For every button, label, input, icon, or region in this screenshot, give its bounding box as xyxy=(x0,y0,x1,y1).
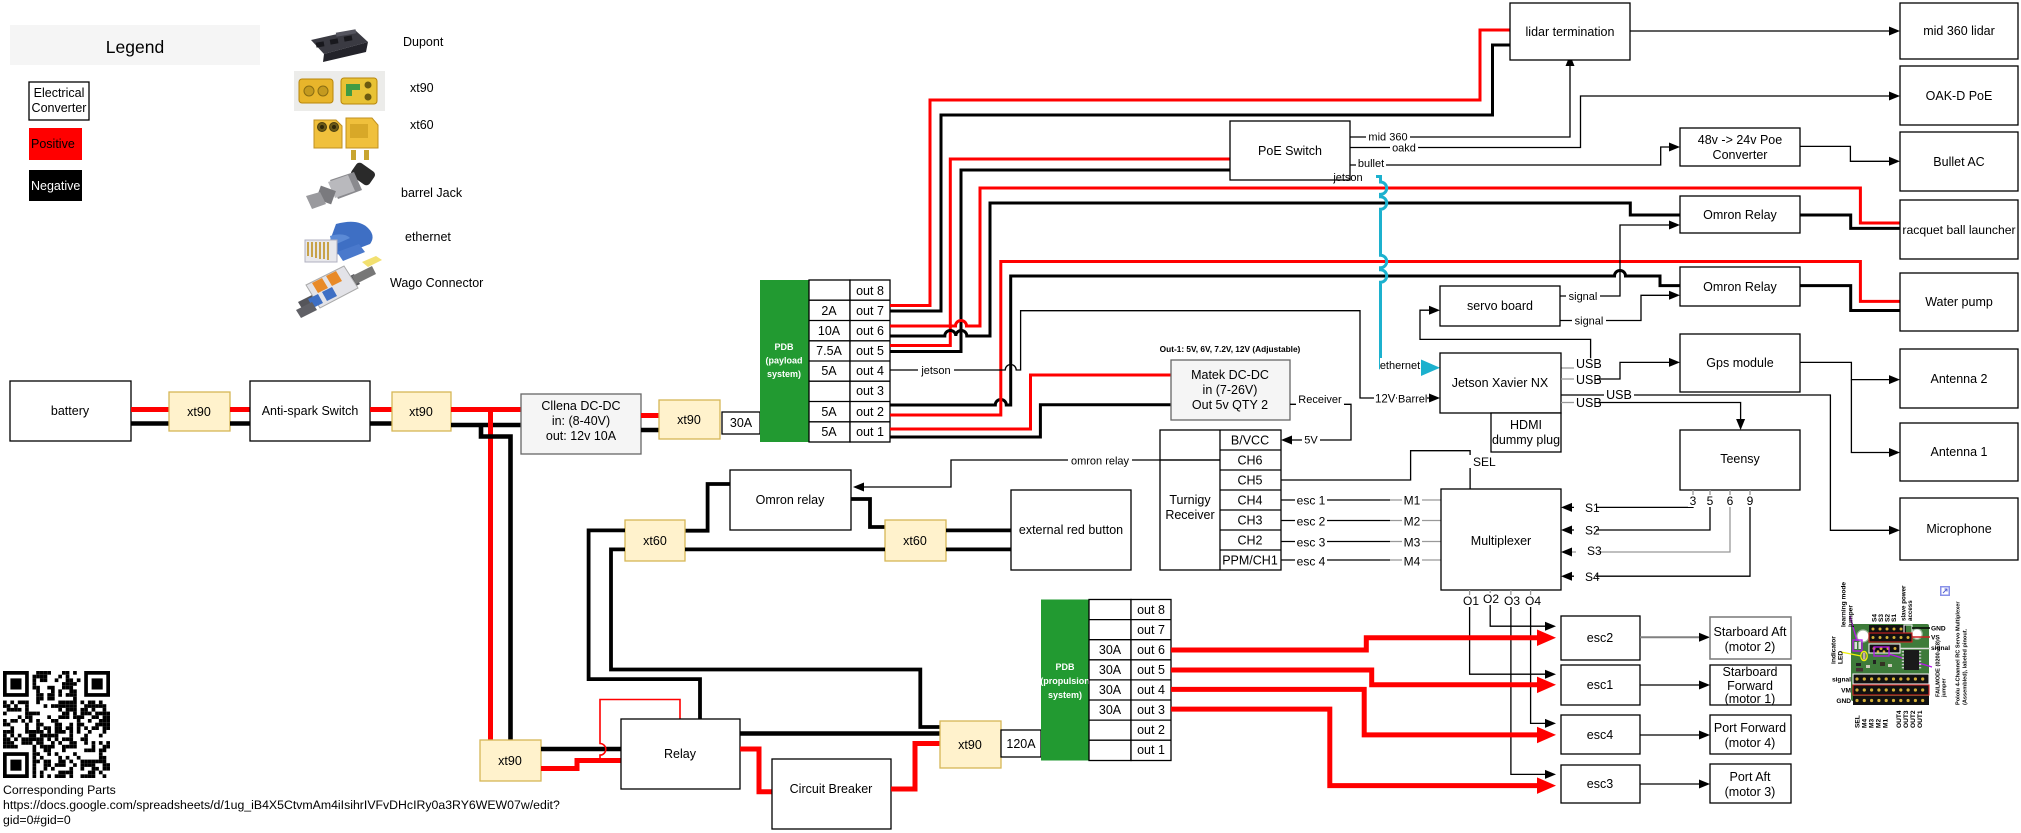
wire out6 black to omron relay 1 xyxy=(890,203,1680,336)
svg-text:Pololu 4-Channel RC Servo Mult: Pololu 4-Channel RC Servo Multiplexer xyxy=(1956,601,1962,705)
svg-text:xt90: xt90 xyxy=(958,738,982,752)
wire xt90A to antispark black xyxy=(230,421,250,426)
svg-text:Converter: Converter xyxy=(1713,148,1768,162)
wire xt90B to cllena red with branch xyxy=(451,407,521,412)
teensy pin number labels xyxy=(1688,494,1755,508)
wire xt60A to xt60B lower black xyxy=(685,548,885,552)
svg-text:O4: O4 xyxy=(1525,594,1541,608)
wire teensy pin 3 to multiplexer S1 xyxy=(1561,497,1693,515)
wire out5 red to poe switch xyxy=(890,159,1230,346)
svg-text:in (7-26V): in (7-26V) xyxy=(1203,383,1258,397)
wire antispark to xt90B red xyxy=(370,407,392,412)
matek dc-dc xyxy=(1160,344,1301,420)
wire xt60B to external red button lower xyxy=(946,548,1011,552)
svg-text:xt60: xt60 xyxy=(903,534,927,548)
pololu multiplexer pinout photo xyxy=(1831,582,1969,728)
svg-text:CH3: CH3 xyxy=(1237,514,1262,528)
wire esc1 to motor1 xyxy=(1640,681,1710,690)
svg-text:out 4: out 4 xyxy=(856,364,884,378)
svg-text:OUT3: OUT3 xyxy=(1903,710,1910,728)
svg-text:30A: 30A xyxy=(1099,663,1122,677)
wire turnigy ch5 to multiplexer sel xyxy=(1281,451,1496,489)
teensy xyxy=(1680,430,1800,490)
wire xt90A to antispark red xyxy=(230,407,250,412)
svg-text:S1: S1 xyxy=(1891,614,1898,622)
svg-text:CH6: CH6 xyxy=(1237,454,1262,468)
wire multiplexer O4 to esc4 xyxy=(1524,590,1556,728)
svg-text:S4: S4 xyxy=(1585,570,1600,584)
wire relay coil red thin xyxy=(600,700,680,761)
svg-text:(payload: (payload xyxy=(765,356,802,366)
svg-text:Out 5v QTY 2: Out 5v QTY 2 xyxy=(1192,398,1268,412)
svg-text:O2: O2 xyxy=(1483,592,1499,606)
wire jetson 12v barrel from out4 xyxy=(890,311,1372,398)
circuit breaker xyxy=(772,759,891,829)
svg-text:ethernet: ethernet xyxy=(1380,360,1420,372)
svg-text:bullet: bullet xyxy=(1358,158,1384,170)
wire omron relay 2 to water pump black xyxy=(1800,286,1900,311)
svg-text:S3: S3 xyxy=(1587,544,1602,558)
svg-text:HDMI: HDMI xyxy=(1510,418,1542,432)
svg-text:Corresponding Parts: Corresponding Parts xyxy=(3,783,116,797)
svg-text:USB: USB xyxy=(1576,357,1602,371)
svg-text:OAK-D PoE: OAK-D PoE xyxy=(1926,89,1993,103)
anti-spark switch xyxy=(250,381,370,441)
svg-text:Matek DC-DC: Matek DC-DC xyxy=(1191,368,1269,382)
svg-text:5V: 5V xyxy=(1304,435,1318,447)
antenna 1 xyxy=(1900,423,2018,481)
wire battery to xt90 black xyxy=(131,421,169,426)
svg-text:30A: 30A xyxy=(1099,643,1122,657)
wire out1 black to matek xyxy=(890,405,1171,437)
svg-text:out 2: out 2 xyxy=(1137,723,1165,737)
svg-text:10A: 10A xyxy=(818,324,841,338)
svg-text:Jetson Xavier NX: Jetson Xavier NX xyxy=(1452,376,1549,390)
svg-text:(motor 1): (motor 1) xyxy=(1725,692,1776,706)
svg-text:M1: M1 xyxy=(1883,719,1890,728)
wire pdb out6 red to esc2 xyxy=(1171,630,1556,651)
svg-text:2A: 2A xyxy=(821,304,837,318)
svg-text:USB: USB xyxy=(1576,396,1602,410)
wire branch down black to xt90 bottom xyxy=(481,423,511,740)
svg-text:PDB: PDB xyxy=(774,342,794,352)
svg-text:OUT4: OUT4 xyxy=(1896,710,1903,728)
svg-text:xt90: xt90 xyxy=(677,413,701,427)
svg-text:9: 9 xyxy=(1747,494,1754,508)
legend positive swatch xyxy=(29,128,82,160)
wire esc2 to motor2 xyxy=(1640,633,1710,642)
label ethernet and cyan arrow into jetson xyxy=(1380,358,1440,376)
jetson xavier nx xyxy=(1440,353,1561,413)
svg-text:Multiplexer: Multiplexer xyxy=(1471,534,1531,548)
svg-text:ethernet: ethernet xyxy=(405,230,451,244)
connector xt90 C xyxy=(659,400,720,439)
svg-text:out 2: out 2 xyxy=(856,405,884,419)
svg-text:3: 3 xyxy=(1690,494,1697,508)
svg-text:jumper: jumper xyxy=(1848,605,1855,628)
esc4 xyxy=(1561,715,1640,754)
connector xt60 A xyxy=(625,520,685,561)
svg-text:M2: M2 xyxy=(1404,515,1421,529)
svg-text:(motor 2): (motor 2) xyxy=(1725,640,1776,654)
svg-text:OUT2: OUT2 xyxy=(1910,710,1917,728)
svg-text:out 5: out 5 xyxy=(1137,663,1165,677)
svg-text:jetson: jetson xyxy=(920,365,950,377)
wire multiplexer O3 to esc3 xyxy=(1503,590,1556,779)
antenna 2 xyxy=(1900,349,2018,408)
multiplexer xyxy=(1441,489,1561,590)
PoE switch xyxy=(1230,121,1350,180)
svg-text:signal: signal xyxy=(1569,291,1598,303)
svg-text:(motor 3): (motor 3) xyxy=(1725,785,1776,799)
svg-text:30A: 30A xyxy=(1099,683,1122,697)
svg-text:5A: 5A xyxy=(821,425,837,439)
wire teensy pin 5 to multiplexer S2 xyxy=(1561,497,1710,538)
fuse 30A xyxy=(722,412,760,434)
wire turnigy ppm to multiplexer m4 xyxy=(1281,555,1441,569)
svg-text:out 1: out 1 xyxy=(856,425,884,439)
relay xyxy=(621,719,740,789)
wire xt90 bottom to relay black xyxy=(541,747,621,752)
svg-text:esc4: esc4 xyxy=(1587,728,1613,742)
wire circuit breaker to xt90 mid red xyxy=(891,744,940,790)
connector xt90 A xyxy=(169,392,230,431)
svg-text:CH4: CH4 xyxy=(1237,494,1262,508)
svg-text:esc2: esc2 xyxy=(1587,631,1613,645)
wire branch down red to xt90 bottom xyxy=(488,410,493,741)
wire omron relay middle left to xt60 A xyxy=(685,484,730,531)
svg-text:Barrel: Barrel xyxy=(1398,394,1427,406)
svg-text:S2: S2 xyxy=(1585,524,1600,538)
svg-text:lidar termination: lidar termination xyxy=(1526,25,1615,39)
svg-text:USB: USB xyxy=(1606,388,1632,402)
svg-text:xt90: xt90 xyxy=(498,754,522,768)
svg-text:M4: M4 xyxy=(1404,555,1421,569)
wire ethernet cyan from poe to jetson xyxy=(1376,177,1392,368)
svg-text:xt60: xt60 xyxy=(410,118,434,132)
legend title box xyxy=(10,25,260,65)
wire usb jetson to gps module xyxy=(1561,358,1680,387)
svg-text:signal: signal xyxy=(1575,316,1604,328)
svg-text:esc 2: esc 2 xyxy=(1297,515,1326,529)
legend photo ethernet connector xyxy=(305,222,373,262)
wire poe bullet to 48v converter xyxy=(1350,143,1680,171)
svg-text:out: 12v 10A: out: 12v 10A xyxy=(546,429,617,443)
wire pdb out4 red to esc4 xyxy=(1171,689,1556,743)
wire xt90B to cllena black xyxy=(451,423,521,428)
wire out1 red to matek xyxy=(890,375,1171,429)
svg-text:esc1: esc1 xyxy=(1587,678,1613,692)
svg-text:(motor 4): (motor 4) xyxy=(1725,736,1776,750)
wire out5 black to poe switch xyxy=(890,170,1230,352)
svg-text:GND: GND xyxy=(1931,626,1946,633)
wire servo board signal 1 to omron relay 1 xyxy=(1560,221,1680,304)
svg-text:5A: 5A xyxy=(821,405,837,419)
svg-text:esc3: esc3 xyxy=(1587,777,1613,791)
svg-text:Dupont: Dupont xyxy=(403,35,444,49)
wire out2 black to omron relay 2 xyxy=(890,271,1680,406)
PDB payload system green box xyxy=(760,280,809,442)
svg-text:esc 4: esc 4 xyxy=(1297,555,1326,569)
wire out7 black to lidar termination xyxy=(890,45,1510,311)
svg-text:access: access xyxy=(1907,600,1914,621)
svg-text:30A: 30A xyxy=(1099,703,1122,717)
esc1 xyxy=(1561,665,1640,705)
svg-text:Omron relay: Omron relay xyxy=(756,493,826,507)
wire pdb out5 red to esc1 xyxy=(1171,670,1556,693)
svg-text:B/VCC: B/VCC xyxy=(1231,434,1269,448)
legend photo xt90 pair xyxy=(294,71,385,111)
wire out2 red to water pump xyxy=(890,262,1900,416)
svg-text:Turnigy: Turnigy xyxy=(1169,493,1211,507)
svg-text:Relay: Relay xyxy=(664,747,697,761)
wire relay to xt90 mid black xyxy=(740,731,940,736)
battery xyxy=(10,381,131,441)
connector xt90 bottom left xyxy=(480,740,541,781)
external red button xyxy=(1011,490,1131,570)
svg-text:48v -> 24v Poe: 48v -> 24v Poe xyxy=(1698,133,1782,147)
wire poe oakd to OAK-D PoE xyxy=(1350,92,1900,155)
svg-text:out 3: out 3 xyxy=(1137,703,1165,717)
svg-text:Circuit Breaker: Circuit Breaker xyxy=(790,782,873,796)
wire turnigy ch2 to multiplexer m3 xyxy=(1281,536,1441,550)
svg-text:(Assembled), labeled pinout.: (Assembled), labeled pinout. xyxy=(1963,628,1969,705)
port aft motor 3 xyxy=(1710,764,1791,803)
wire usb jetson to servo board xyxy=(1420,306,1602,371)
svg-text:xt60: xt60 xyxy=(643,534,667,548)
svg-text:CH2: CH2 xyxy=(1237,534,1262,548)
svg-text:M1: M1 xyxy=(1404,494,1421,508)
svg-text:Electrical: Electrical xyxy=(34,86,85,100)
svg-text:learning mode: learning mode xyxy=(1841,582,1848,627)
svg-text:Water pump: Water pump xyxy=(1925,295,1993,309)
svg-text:M3: M3 xyxy=(1404,536,1421,550)
wire teensy pin 9 to multiplexer S4 xyxy=(1561,497,1750,584)
svg-text:S1: S1 xyxy=(1585,501,1600,515)
svg-text:external red button: external red button xyxy=(1019,523,1123,537)
esc3 xyxy=(1561,765,1640,803)
svg-text:Wago Connector: Wago Connector xyxy=(390,276,483,290)
svg-text:oakd: oakd xyxy=(1392,143,1416,155)
svg-text:OUT1: OUT1 xyxy=(1917,710,1924,728)
svg-text:out 6: out 6 xyxy=(1137,643,1165,657)
wire gps to antenna 2 xyxy=(1800,362,1900,384)
svg-text:VM: VM xyxy=(1841,688,1851,695)
svg-text:omron relay: omron relay xyxy=(1071,456,1130,468)
svg-text:in: (8-40V): in: (8-40V) xyxy=(552,414,610,428)
svg-text:Negative: Negative xyxy=(31,179,80,193)
svg-text:gid=0#gid=0: gid=0#gid=0 xyxy=(3,813,71,827)
svg-text:out 3: out 3 xyxy=(856,384,884,398)
OAK-D PoE xyxy=(1900,66,2018,125)
svg-text:6: 6 xyxy=(1727,494,1734,508)
svg-text:5: 5 xyxy=(1707,494,1714,508)
svg-text:(propulsion: (propulsion xyxy=(1040,676,1090,686)
svg-text:O3: O3 xyxy=(1504,594,1520,608)
legend negative swatch xyxy=(29,170,82,201)
connector xt90 B xyxy=(392,392,451,431)
svg-text:out 1: out 1 xyxy=(1137,743,1165,757)
microphone xyxy=(1900,498,2018,560)
wire usb jetson to microphone xyxy=(1561,388,1900,535)
wire xt90 bottom to relay red xyxy=(541,761,621,769)
svg-text:Antenna 1: Antenna 1 xyxy=(1931,445,1988,459)
svg-text:jetson: jetson xyxy=(1332,172,1362,184)
wire turnigy ch6 to omron relay middle xyxy=(853,454,1220,492)
svg-text:xt90: xt90 xyxy=(187,405,211,419)
svg-text:out 8: out 8 xyxy=(856,284,884,298)
svg-text:barrel Jack: barrel Jack xyxy=(401,186,463,200)
svg-text:Converter: Converter xyxy=(32,101,87,115)
wire servo board signal 2 to omron relay 2 xyxy=(1560,291,1680,328)
svg-text:Out-1: 5V, 6V, 7.2V, 12V (Adju: Out-1: 5V, 6V, 7.2V, 12V (Adjustable) xyxy=(1160,344,1301,354)
svg-text:out 8: out 8 xyxy=(1137,603,1165,617)
wire lidar termination to mid 360 lidar xyxy=(1630,27,1900,36)
label jetson on out4 wire xyxy=(918,363,954,377)
legend photo wago connector xyxy=(296,256,382,318)
svg-text:out 5: out 5 xyxy=(856,344,884,358)
svg-text:USB: USB xyxy=(1576,373,1602,387)
wire turnigy ch3 to multiplexer m2 xyxy=(1281,515,1441,529)
wire omron relay middle right to xt60 B xyxy=(851,499,885,527)
svg-text:PoE Switch: PoE Switch xyxy=(1258,144,1322,158)
hdmi dummy plug xyxy=(1491,413,1561,452)
svg-text:system): system) xyxy=(767,369,801,379)
svg-text:signal: signal xyxy=(1832,677,1851,684)
PDB propulsion fuse table xyxy=(1089,600,1171,761)
omron relay 1 xyxy=(1680,196,1800,233)
teensy pin stubs and pin labels xyxy=(1693,490,1750,497)
svg-text:Positive: Positive xyxy=(31,137,75,151)
svg-text:Port Aft: Port Aft xyxy=(1730,770,1772,784)
svg-text:Starboard Aft: Starboard Aft xyxy=(1714,625,1787,639)
wire out6 red to racquet ball launcher xyxy=(890,188,1900,326)
QR code xyxy=(3,671,110,778)
wire gps to antenna 1 xyxy=(1851,380,1900,457)
svg-text:Omron Relay: Omron Relay xyxy=(1703,280,1777,294)
starboard forward motor 1 xyxy=(1710,665,1791,706)
svg-text:https://docs.google.com/spread: https://docs.google.com/spreadsheets/d/1… xyxy=(3,798,560,812)
omron relay 2 xyxy=(1680,267,1800,306)
svg-text:xt90: xt90 xyxy=(410,81,434,95)
svg-text:Gps module: Gps module xyxy=(1706,356,1773,370)
wire out7 red to lidar termination xyxy=(890,30,1510,306)
racquet ball launcher xyxy=(1900,200,2018,259)
legend photo xt60 pair xyxy=(314,118,378,160)
wire turnigy ch4 to multiplexer m1 xyxy=(1281,494,1441,508)
legend electrical converter box xyxy=(29,82,89,120)
svg-text:CH5: CH5 xyxy=(1237,474,1262,488)
svg-text:servo board: servo board xyxy=(1467,299,1533,313)
svg-text:120A: 120A xyxy=(1006,737,1036,751)
svg-text:SEL: SEL xyxy=(1473,455,1496,469)
wire converter to bullet ac xyxy=(1800,146,1900,165)
connector xt90 bottom middle xyxy=(940,721,1001,768)
wire esc3 to motor3 xyxy=(1640,780,1710,789)
svg-text:SEL: SEL xyxy=(1855,715,1862,728)
svg-text:jumper: jumper xyxy=(1942,678,1948,698)
servo board xyxy=(1440,286,1560,326)
svg-text:out 7: out 7 xyxy=(1137,623,1165,637)
svg-text:indicator: indicator xyxy=(1831,636,1838,664)
svg-text:Port Forward: Port Forward xyxy=(1714,721,1786,735)
wire cllena to xt90C black xyxy=(641,428,659,433)
svg-text:30A: 30A xyxy=(730,416,753,430)
wire poe mid360 to lidar termination bottom xyxy=(1350,55,1575,144)
water pump xyxy=(1900,273,2018,331)
svg-text:Receiver: Receiver xyxy=(1165,508,1214,522)
wire pdb out3 red to esc3 xyxy=(1171,709,1556,794)
svg-text:mid 360 lidar: mid 360 lidar xyxy=(1923,24,1995,38)
svg-text:xt90: xt90 xyxy=(409,405,433,419)
wire omron relay segment across turnigy left cell xyxy=(1160,459,1220,461)
svg-text:Forward: Forward xyxy=(1727,679,1773,693)
svg-text:out 4: out 4 xyxy=(1137,683,1165,697)
PDB propulsion system green box xyxy=(1040,600,1090,761)
svg-text:M3: M3 xyxy=(1869,719,1876,728)
label 12V Barrel with arrow into jetson xyxy=(1372,392,1440,406)
svg-text:5A: 5A xyxy=(821,364,837,378)
wire relay to circuit breaker red xyxy=(740,749,772,792)
svg-text:system): system) xyxy=(1048,690,1082,700)
svg-text:Starboard: Starboard xyxy=(1723,665,1778,679)
wire multiplexer O1 to esc1 xyxy=(1462,590,1556,679)
svg-text:out 6: out 6 xyxy=(856,324,884,338)
connector xt60 B xyxy=(885,520,946,561)
wire usb jetson to teensy xyxy=(1561,396,1745,430)
wire cllena to xt90C red xyxy=(641,413,659,418)
mid 360 lidar xyxy=(1900,3,2018,59)
svg-text:esc 1: esc 1 xyxy=(1297,494,1326,508)
svg-text:Cllena DC-DC: Cllena DC-DC xyxy=(541,399,620,413)
fuse 120A xyxy=(1001,730,1041,757)
wire xt60B to external red button upper xyxy=(946,529,1011,533)
turnigy receiver table xyxy=(1160,430,1281,570)
svg-text:Omron Relay: Omron Relay xyxy=(1703,208,1777,222)
Bullet AC xyxy=(1900,132,2018,191)
legend photo barrel jack xyxy=(306,161,377,209)
wire matek receiver 5v to turnigy bvcc xyxy=(1281,392,1351,447)
legend photo Dupont connector xyxy=(311,29,368,62)
gps module xyxy=(1680,334,1800,392)
starboard aft motor 2 xyxy=(1710,617,1791,659)
svg-text:out 7: out 7 xyxy=(856,304,884,318)
svg-text:racquet ball launcher: racquet ball launcher xyxy=(1902,223,2015,237)
svg-text:Microphone: Microphone xyxy=(1926,522,1991,536)
svg-text:12V: 12V xyxy=(1375,394,1396,406)
wire multiplexer O2 to esc2 xyxy=(1482,590,1556,631)
wire xt60A left down to xt90 mid xyxy=(611,549,940,727)
port forward motor 4 xyxy=(1710,715,1791,754)
svg-text:M4: M4 xyxy=(1862,719,1869,728)
48v to 24v poe converter xyxy=(1680,128,1800,166)
wire antispark to xt90B black xyxy=(370,421,392,426)
svg-text:esc 3: esc 3 xyxy=(1297,536,1326,550)
svg-text:LED: LED xyxy=(1838,651,1845,664)
wire battery to xt90 red xyxy=(131,407,169,412)
svg-text:7.5A: 7.5A xyxy=(816,344,842,358)
omron relay middle xyxy=(730,470,851,530)
svg-text:Legend: Legend xyxy=(106,37,164,57)
wire esc4 to motor4 xyxy=(1640,731,1710,740)
svg-text:Receiver: Receiver xyxy=(1298,394,1342,406)
wire teensy pin 6 to multiplexer S3 xyxy=(1561,497,1730,558)
svg-text:Antenna 2: Antenna 2 xyxy=(1931,372,1988,386)
svg-text:M2: M2 xyxy=(1876,719,1883,728)
svg-text:Bullet AC: Bullet AC xyxy=(1933,155,1984,169)
svg-text:PDB: PDB xyxy=(1055,662,1075,672)
wire xt60A left down to relay top xyxy=(589,530,700,719)
